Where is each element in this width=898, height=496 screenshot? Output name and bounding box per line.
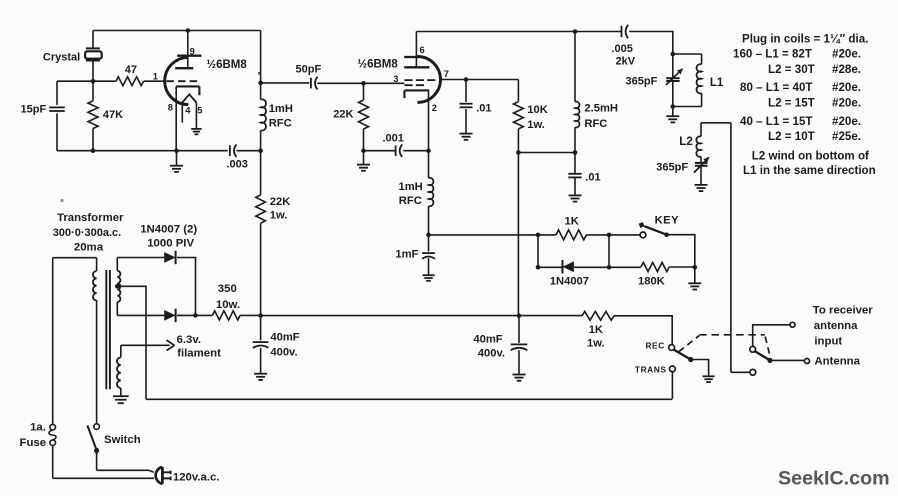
- wire antenna lead: [770, 359, 804, 361]
- svg-text:1N4007 (2): 1N4007 (2): [140, 224, 197, 236]
- svg-text:22K: 22K: [333, 109, 353, 121]
- resistor 22K grid: [363, 83, 365, 100]
- wire mains leads: [97, 470, 154, 472]
- svg-text:1K: 1K: [565, 216, 579, 228]
- switch KEY lever: [644, 226, 666, 235]
- wire cathode keying branch: [428, 151, 430, 178]
- capacitor .001: [364, 150, 396, 152]
- ground under 22K: [363, 151, 365, 165]
- svg-text:½6BM8: ½6BM8: [207, 59, 248, 71]
- ground under key: [694, 267, 696, 283]
- tube U1a heater: [182, 94, 196, 102]
- wire secondary top to diode: [117, 257, 164, 259]
- svg-text:22K: 22K: [270, 196, 291, 208]
- svg-text:10w.: 10w.: [216, 299, 240, 311]
- resistor 350 10w: [196, 314, 213, 316]
- svg-text:L2 = 10T: L2 = 10T: [768, 130, 815, 143]
- node tank bottom: [671, 104, 676, 109]
- svg-text:1w.: 1w.: [527, 119, 545, 131]
- svg-text:1N4007: 1N4007: [550, 276, 589, 288]
- node crystal/grid junction: [91, 79, 96, 84]
- capacitor .01 screen: [574, 153, 576, 174]
- svg-text:40mF: 40mF: [473, 333, 502, 345]
- svg-text:.01: .01: [585, 171, 600, 183]
- svg-text:#20e.: #20e.: [832, 81, 861, 94]
- node cathode bottom: [174, 148, 179, 153]
- svg-text:2kV: 2kV: [616, 56, 636, 68]
- switch TRANS contact: [670, 366, 676, 372]
- node 1K left: [536, 233, 541, 238]
- svg-text:8: 8: [168, 102, 173, 112]
- variable capacitor 365pF (L2): [700, 157, 702, 163]
- switch KEY contact: [640, 232, 646, 238]
- node choke bottom: [258, 148, 263, 153]
- wire left branch: [56, 81, 58, 105]
- svg-text:2.5mH: 2.5mH: [584, 102, 618, 114]
- svg-text:SeekIC.com: SeekIC.com: [778, 468, 890, 490]
- svg-text:½6BM8: ½6BM8: [358, 58, 399, 70]
- switch S3 lower contact: [750, 369, 756, 375]
- node center tap: [115, 284, 120, 289]
- wire secondary bottom to diode: [117, 314, 164, 316]
- resistor 1K 1w: [582, 311, 614, 320]
- node 1K right: [607, 233, 612, 238]
- diode 1N4007 D2: [164, 310, 175, 321]
- svg-text:.001: .001: [383, 132, 404, 144]
- svg-text:1mH: 1mH: [269, 103, 293, 115]
- wire top-left B+ rail: [93, 30, 261, 32]
- node key rail left: [426, 233, 431, 238]
- svg-text:Antenna: Antenna: [814, 356, 860, 368]
- ground under 40mF first: [254, 373, 267, 375]
- capacitor 1mF: [428, 235, 430, 252]
- svg-text:REC: REC: [645, 341, 664, 351]
- wire diode branch: [537, 235, 539, 267]
- svg-text:1mF: 1mF: [395, 248, 418, 260]
- tube U1b 1/2 6BM8 envelope: [418, 57, 441, 103]
- wire tank bottom rail: [673, 106, 702, 108]
- svg-text:2: 2: [432, 103, 437, 113]
- ground under S2: [703, 375, 715, 377]
- svg-text:.003: .003: [227, 159, 248, 171]
- speck: [60, 199, 63, 202]
- transformer core: [105, 270, 107, 389]
- resistor 22K 1w: [260, 151, 262, 195]
- node diode/180K junction: [607, 265, 612, 270]
- svg-text:350: 350: [218, 283, 237, 295]
- wire key rail: [429, 234, 557, 236]
- svg-text:4: 4: [185, 106, 191, 116]
- svg-text:KEY: KEY: [655, 214, 680, 226]
- svg-text:6: 6: [420, 45, 425, 55]
- wire grid line: [57, 80, 116, 82]
- ground under tank: [672, 107, 674, 116]
- svg-text:L2: L2: [679, 136, 692, 148]
- tube U1a 1/2 6BM8 envelope: [165, 57, 189, 104]
- svg-text:180K: 180K: [638, 276, 665, 288]
- svg-text:365pF: 365pF: [656, 161, 688, 173]
- svg-text:47: 47: [125, 64, 137, 76]
- resistor 1K key: [556, 230, 586, 240]
- svg-text:To receiver: To receiver: [813, 305, 874, 317]
- node .01 tap: [464, 77, 469, 82]
- svg-text:15pF: 15pF: [21, 104, 47, 116]
- terminal receiver: [790, 322, 795, 327]
- wire B- rail: [146, 398, 672, 400]
- node 47K bottom: [91, 148, 96, 153]
- ground under filament winding: [113, 395, 129, 397]
- wire top-right B+ rail: [416, 31, 621, 33]
- svg-text:400v.: 400v.: [478, 347, 505, 359]
- ground under .01: [460, 133, 473, 135]
- svg-text:1mH: 1mH: [399, 181, 423, 193]
- node cathode/.001 junction: [426, 148, 431, 153]
- wire B+ bus down: [517, 153, 519, 316]
- node RFC top: [573, 29, 578, 34]
- svg-text:47K: 47K: [103, 109, 123, 121]
- svg-text:TRANS: TRANS: [635, 365, 667, 375]
- inductor L1: [701, 54, 703, 64]
- svg-text:L2 = 15T: L2 = 15T: [768, 97, 815, 110]
- wire screen node rail: [518, 152, 575, 154]
- capacitor 40mF 400v second: [518, 316, 520, 343]
- node KEY pivot: [664, 232, 669, 237]
- terminal antenna: [805, 359, 810, 364]
- svg-text:10K: 10K: [527, 104, 548, 116]
- capacitor 50pF: [310, 78, 312, 89]
- svg-text:#20e.: #20e.: [832, 48, 861, 61]
- wire L2 link to switch: [701, 122, 731, 124]
- capacitor 40mF 400v first: [260, 316, 262, 341]
- svg-text:120v.a.c.: 120v.a.c.: [173, 472, 220, 484]
- capacitor 15pF: [49, 106, 65, 108]
- svg-text:Fuse: Fuse: [20, 437, 47, 449]
- node 10K bottom: [516, 150, 521, 155]
- svg-text:9: 9: [190, 46, 195, 56]
- inductor 1mH RFC: [261, 99, 266, 130]
- svg-text:1a.: 1a.: [30, 421, 46, 433]
- svg-text:.01: .01: [476, 102, 491, 114]
- svg-text:Crystal: Crystal: [43, 52, 80, 64]
- svg-text:#28e.: #28e.: [832, 63, 861, 76]
- transformer primary winding: [96, 258, 98, 271]
- svg-text:80 – L1 = 40T: 80 – L1 = 40T: [740, 81, 813, 94]
- svg-text:antenna: antenna: [814, 320, 858, 332]
- crystal Y1: [92, 31, 94, 49]
- switch S2 arm: [674, 350, 691, 360]
- link dashed S2-S3: [679, 336, 699, 352]
- svg-text:3: 3: [393, 74, 398, 84]
- ground under screen .01: [569, 194, 582, 196]
- svg-text:RFC: RFC: [399, 195, 422, 207]
- node tank top: [671, 52, 676, 57]
- svg-text:#20e.: #20e.: [832, 115, 861, 128]
- tube U1a plate: [187, 31, 189, 56]
- svg-text:1000 PIV: 1000 PIV: [147, 238, 194, 250]
- plug 120v.a.c.: [161, 467, 164, 484]
- svg-text:L2 wind on bottom of: L2 wind on bottom of: [752, 150, 869, 163]
- node grid junction: [361, 81, 366, 86]
- transformer HV secondary: [116, 258, 118, 271]
- tube U1b control grid (dashed): [404, 84, 424, 86]
- ground under tube1 cathode: [176, 151, 178, 166]
- wire B+ rail: [261, 315, 582, 317]
- svg-text:#25e.: #25e.: [832, 130, 861, 143]
- capacitor .003: [229, 145, 231, 156]
- svg-text:40 – L1 = 15T: 40 – L1 = 15T: [740, 115, 813, 128]
- inductor 2.5mH RFC: [574, 32, 576, 102]
- resistor 47K: [92, 81, 94, 101]
- resistor 47: [116, 77, 144, 86]
- svg-text:L1: L1: [710, 77, 724, 89]
- inductor 1mH RFC cathode: [429, 178, 434, 206]
- tube U1a grid (dashed): [167, 80, 200, 82]
- tube U1b screen grid (dashed): [404, 79, 435, 81]
- node rectifier output: [193, 313, 198, 318]
- wire coupling: [261, 82, 310, 84]
- capacitor .005 2kV: [621, 26, 623, 37]
- resistor 180K: [641, 262, 669, 271]
- svg-text:#20e.: #20e.: [832, 97, 861, 110]
- svg-text:filament: filament: [177, 347, 221, 359]
- svg-text:Plug in coils = 1¼′′ dia.: Plug in coils = 1¼′′ dia.: [742, 33, 868, 46]
- svg-text:input: input: [814, 335, 842, 347]
- svg-text:L1 in the same direction: L1 in the same direction: [743, 164, 876, 177]
- svg-text:Switch: Switch: [104, 434, 141, 446]
- ground under L2: [695, 184, 708, 186]
- svg-text:RFC: RFC: [269, 118, 292, 130]
- svg-text:160 – L1 = 82T: 160 – L1 = 82T: [733, 48, 812, 61]
- node B+ filter: [258, 313, 263, 318]
- wire primary left: [53, 257, 97, 259]
- wire bottom ground rail: [57, 150, 228, 152]
- diode 1N4007 D1: [164, 252, 175, 263]
- transformer filament winding: [120, 345, 122, 357]
- node 22K bottom: [361, 148, 366, 153]
- resistor 10K 1w: [517, 80, 519, 102]
- svg-text:7: 7: [444, 69, 449, 79]
- svg-text:6.3v.: 6.3v.: [177, 334, 202, 346]
- node 50pF tap: [258, 81, 263, 86]
- fuse F1 1a: [52, 423, 54, 425]
- wire plate choke branch: [260, 31, 262, 100]
- tube U1a cathode: [176, 85, 199, 87]
- tube U1b plate: [415, 32, 417, 58]
- svg-text:L2 = 30T: L2 = 30T: [768, 63, 815, 76]
- svg-text:400v.: 400v.: [270, 347, 297, 359]
- svg-text:RFC: RFC: [584, 118, 607, 130]
- svg-text:1w.: 1w.: [270, 210, 288, 222]
- wire tank top rail: [673, 53, 702, 55]
- ground under 40mF second: [513, 374, 526, 376]
- node 180K right: [693, 265, 698, 270]
- variable capacitor 365pF (L1): [672, 54, 674, 78]
- svg-text:5: 5: [197, 106, 202, 116]
- svg-text:20ma: 20ma: [74, 242, 104, 254]
- diode 1N4007 key: [563, 261, 574, 272]
- svg-text:.005: .005: [612, 43, 633, 55]
- tube U1b cathode: [404, 89, 429, 91]
- switch S3 pivot contact: [750, 346, 756, 352]
- ground under 1mF: [423, 274, 435, 276]
- svg-text:50pF: 50pF: [296, 63, 322, 75]
- switch S3 arm: [755, 351, 770, 360]
- wire pin7 output: [441, 79, 519, 81]
- capacitor .01 bypass: [465, 80, 467, 102]
- svg-text:300·0·300a.c.: 300·0·300a.c.: [53, 227, 122, 239]
- inductor L2: [700, 123, 702, 137]
- wire center tap to B-: [117, 286, 146, 399]
- switch S1 mains: [94, 424, 100, 430]
- ground pin5 heater: [191, 128, 201, 130]
- wire 6.3v filament tap: [121, 344, 170, 346]
- svg-text:Transformer: Transformer: [57, 212, 124, 224]
- svg-text:365pF: 365pF: [626, 75, 658, 87]
- svg-text:1K: 1K: [589, 324, 603, 336]
- node RFC bottom: [573, 150, 578, 155]
- svg-text:1w.: 1w.: [587, 337, 605, 349]
- svg-text:40mF: 40mF: [270, 331, 299, 343]
- svg-text:1: 1: [153, 71, 158, 81]
- node tube1 plate junction: [186, 28, 191, 33]
- switch REC contact: [669, 345, 675, 351]
